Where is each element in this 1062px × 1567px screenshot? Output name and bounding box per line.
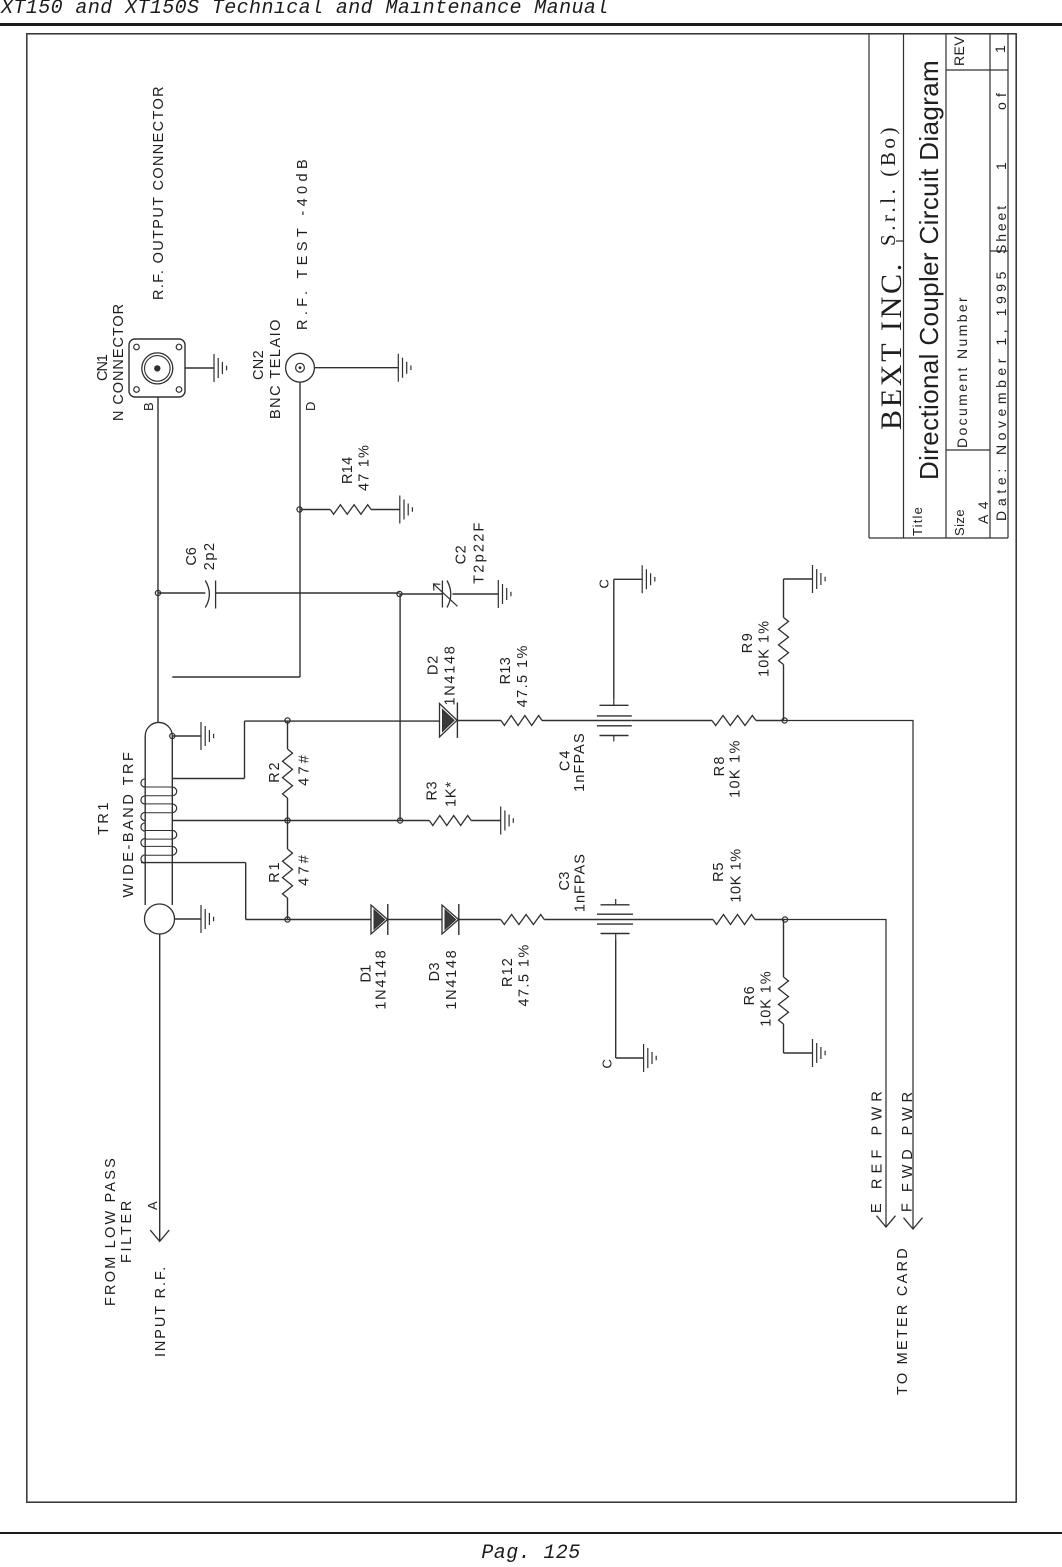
wire C2 to ground bbox=[453, 593, 499, 595]
wire cross link between verticals bbox=[399, 594, 401, 821]
svg-text:R5: R5 bbox=[711, 862, 727, 882]
svg-text:1: 1 bbox=[992, 45, 1008, 53]
transformer TR1 winding cross wires bbox=[145, 787, 172, 855]
svg-text:1N4148: 1N4148 bbox=[444, 949, 460, 1010]
svg-text:Size: Size bbox=[952, 509, 967, 536]
node C wire at C4 bbox=[613, 579, 615, 699]
svg-text:N CONNECTOR: N CONNECTOR bbox=[111, 303, 127, 421]
svg-text:REV: REV bbox=[951, 36, 967, 66]
svg-text:D1: D1 bbox=[359, 965, 375, 983]
wire TR1 inner conductor to CN1 junction bbox=[157, 593, 159, 723]
svg-text:R1: R1 bbox=[267, 861, 283, 883]
svg-text:Sheet: Sheet bbox=[993, 203, 1009, 254]
ground at C4 node C bbox=[642, 565, 655, 593]
svg-text:Date:: Date: bbox=[993, 464, 1009, 521]
svg-text:Document Number: Document Number bbox=[954, 295, 970, 448]
svg-text:D3: D3 bbox=[427, 962, 443, 981]
diode D3 1N4148 bbox=[442, 905, 459, 934]
wire R12 to C3 bbox=[544, 919, 597, 921]
title block grid lines bbox=[869, 34, 1008, 538]
wire C6 to C2 junction bbox=[216, 592, 400, 594]
svg-text:WIDE-BAND TRF: WIDE-BAND TRF bbox=[121, 750, 137, 898]
junction dot R14 tap bbox=[297, 507, 302, 512]
capacitor C6 bbox=[205, 581, 209, 608]
svg-text:10K 1%: 10K 1% bbox=[728, 739, 744, 797]
resistor R13 bbox=[501, 716, 542, 726]
svg-text:R8: R8 bbox=[712, 755, 728, 776]
svg-text:47#: 47# bbox=[297, 852, 313, 886]
junction dot R1 bottom chain bbox=[285, 917, 290, 922]
diode D1 1N4148 bbox=[371, 905, 388, 934]
svg-text:CN1: CN1 bbox=[95, 354, 111, 381]
ground at R3 bbox=[501, 807, 514, 835]
arrowhead A input arrow bbox=[150, 1230, 169, 1241]
node C wire at C3 bbox=[615, 939, 617, 1058]
svg-text:B: B bbox=[141, 402, 156, 411]
svg-text:1nFPAS: 1nFPAS bbox=[572, 732, 588, 792]
junction dot on center-tap line bbox=[398, 818, 403, 823]
svg-text:R.F. TEST -40dB: R.F. TEST -40dB bbox=[295, 155, 311, 330]
svg-text:R2: R2 bbox=[267, 761, 283, 783]
junction dot R2 top bbox=[285, 718, 290, 723]
svg-text:1: 1 bbox=[993, 162, 1009, 170]
resistor R2 bbox=[287, 798, 289, 821]
svg-text:TO METER CARD: TO METER CARD bbox=[895, 1246, 911, 1395]
svg-text:FROM LOW PASS: FROM LOW PASS bbox=[103, 1156, 119, 1306]
svg-text:C2: C2 bbox=[454, 545, 470, 565]
svg-text:C: C bbox=[599, 1059, 614, 1068]
wire E output down and left bbox=[785, 920, 886, 1228]
arrowhead E output bbox=[877, 1216, 896, 1227]
svg-text:R.F. OUTPUT CONNECTOR: R.F. OUTPUT CONNECTOR bbox=[151, 85, 167, 300]
svg-text:10K 1%: 10K 1% bbox=[729, 848, 745, 902]
svg-text:1nFPAS: 1nFPAS bbox=[573, 853, 589, 912]
svg-text:1N4148: 1N4148 bbox=[443, 645, 459, 706]
resistor R12 bbox=[501, 915, 545, 925]
junction dot R8-R9 node F line bbox=[782, 718, 787, 723]
wire D3 to R12 bbox=[459, 919, 501, 921]
transformer TR1 winding bumps bbox=[141, 779, 177, 863]
svg-text:BNC TELAIO: BNC TELAIO bbox=[268, 318, 284, 419]
svg-text:Directional Coupler Circuit Di: Directional Coupler Circuit Diagram bbox=[914, 60, 944, 480]
svg-text:1K*: 1K* bbox=[444, 781, 460, 807]
svg-text:C6: C6 bbox=[184, 547, 200, 565]
wire TR1 winding bottom end down to detector line bbox=[141, 862, 246, 864]
svg-text:S.r.l. (Bo): S.r.l. (Bo) bbox=[876, 124, 900, 246]
wire main vertical from CN1 junction down to C6 bbox=[158, 592, 205, 594]
svg-text:2p2: 2p2 bbox=[202, 541, 218, 570]
feed-through capacitor C3 1nFPAS bbox=[597, 919, 633, 921]
ground at C3 node C bbox=[644, 1044, 657, 1072]
wire TR1 winding top end down to detector line bbox=[172, 778, 244, 780]
resistor R8 bbox=[712, 716, 756, 726]
svg-text:F: F bbox=[899, 1203, 915, 1212]
page header manual title bbox=[1, 0, 609, 20]
resistor R6 bbox=[783, 920, 785, 978]
wire input RF line to transformer (node A line) bbox=[159, 934, 161, 1241]
resistor R14 bbox=[300, 509, 331, 511]
page footer rule bbox=[0, 1532, 1062, 1534]
arrowhead F output bbox=[904, 1218, 923, 1229]
resistor R5 bbox=[713, 915, 755, 925]
junction dot at C2 and cross wire bbox=[397, 591, 402, 596]
wire C3 to R5 bbox=[633, 919, 713, 921]
svg-text:TR1: TR1 bbox=[96, 800, 112, 835]
connector CN2 BNC bbox=[286, 353, 315, 382]
svg-text:REF PWR: REF PWR bbox=[869, 1086, 885, 1189]
wire junction B-line to CN1 bbox=[157, 369, 159, 594]
page header rule bbox=[0, 23, 1062, 26]
svg-text:R6: R6 bbox=[742, 986, 758, 1006]
svg-text:BEXT INC.: BEXT INC. bbox=[875, 261, 908, 430]
wire D2 to R13 bbox=[457, 720, 501, 722]
trimmer capacitor C2 bbox=[400, 593, 443, 595]
junction dot at main vertical and CN1 line bbox=[155, 590, 160, 595]
junction dot R1-R2 node bbox=[285, 818, 290, 823]
connector CN1 N-type flange bbox=[129, 339, 185, 397]
svg-text:R13: R13 bbox=[498, 657, 514, 685]
svg-text:FILTER: FILTER bbox=[119, 1198, 135, 1263]
wire C4 to R8 bbox=[632, 720, 712, 722]
feed-through capacitor C4 1nFPAS bbox=[597, 720, 632, 722]
svg-text:FWD PWR: FWD PWR bbox=[900, 1087, 916, 1192]
svg-text:D2: D2 bbox=[426, 655, 442, 675]
svg-text:47.5 1%: 47.5 1% bbox=[515, 644, 531, 707]
node junction at TR1 shield corner bbox=[170, 733, 175, 738]
ground at R6 bbox=[813, 1039, 826, 1067]
transformer TR1 coax body (capsule) bbox=[144, 736, 146, 905]
wire D1 to D3 bbox=[388, 919, 442, 921]
wire detector chain top segment bbox=[245, 720, 440, 722]
ground at CN1 flange bbox=[185, 367, 214, 369]
diode D2 1N4148 bbox=[440, 704, 458, 738]
svg-text:C3: C3 bbox=[557, 871, 573, 890]
wire F output down and left bbox=[785, 721, 913, 1230]
svg-text:INPUT R.F.: INPUT R.F. bbox=[153, 1265, 169, 1357]
ground at R14 bbox=[400, 496, 413, 524]
resistor R3 bbox=[429, 816, 471, 826]
svg-text:of: of bbox=[993, 88, 1009, 110]
svg-text:R14: R14 bbox=[340, 457, 356, 485]
svg-text:47.5 1%: 47.5 1% bbox=[516, 943, 532, 1006]
svg-text:10K 1%: 10K 1% bbox=[757, 620, 773, 677]
svg-text:1N4148: 1N4148 bbox=[373, 949, 389, 1010]
svg-text:T2p22F: T2p22F bbox=[472, 520, 488, 583]
svg-text:47#: 47# bbox=[297, 752, 313, 786]
svg-text:R12: R12 bbox=[500, 957, 516, 987]
junction dot R5-R6 node E line bbox=[782, 917, 787, 922]
resistor R9 bbox=[783, 665, 785, 721]
svg-text:November 1, 1995: November 1, 1995 bbox=[993, 267, 1009, 455]
svg-text:47 1%: 47 1% bbox=[357, 444, 373, 491]
resistor R1 bbox=[287, 898, 289, 920]
ground at C2 bbox=[498, 580, 511, 608]
ground at R9 bbox=[813, 565, 826, 593]
svg-text:C: C bbox=[597, 579, 612, 588]
ground at TR1 left circle bbox=[175, 918, 202, 920]
ground at TR1 shield corner bbox=[172, 735, 201, 737]
svg-text:Title: Title bbox=[910, 506, 925, 536]
svg-text:R9: R9 bbox=[740, 632, 756, 654]
ground at CN2 bbox=[314, 367, 398, 369]
wire R13 to C4 bbox=[542, 720, 597, 722]
wire bottom chain top segment bbox=[246, 919, 371, 921]
wire CN2 stub from shield corner bbox=[172, 676, 300, 678]
svg-text:CN2: CN2 bbox=[251, 350, 267, 380]
svg-text:A: A bbox=[145, 1201, 160, 1210]
wire TR1 center tap vertical line bbox=[172, 820, 429, 822]
svg-text:A4: A4 bbox=[975, 496, 991, 524]
svg-text:D: D bbox=[303, 402, 318, 411]
svg-text:C4: C4 bbox=[558, 748, 574, 771]
svg-text:E: E bbox=[869, 1203, 885, 1213]
svg-text:10K 1%: 10K 1% bbox=[759, 971, 775, 1027]
svg-text:R3: R3 bbox=[425, 781, 441, 801]
page footer number bbox=[0, 1542, 1062, 1565]
